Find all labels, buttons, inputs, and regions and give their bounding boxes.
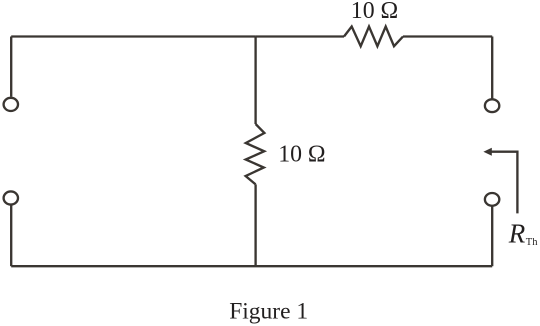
arrow RTh head xyxy=(483,148,491,156)
wire left upper (top-left corner to terminal a) xyxy=(10,37,12,97)
resistor R1 10 ohm (horizontal zigzag) xyxy=(344,27,403,47)
wire right lower (terminal d to bottom-right corner) xyxy=(491,207,493,267)
terminal a (upper-left open circle) xyxy=(4,98,18,111)
wire left lower (terminal b to bottom-left corner) xyxy=(10,205,12,266)
arrow RTh (L-shaped pointer line) xyxy=(490,152,518,214)
svg-text:Figure 1: Figure 1 xyxy=(229,299,308,325)
wire top (middle node to resistor R1) xyxy=(256,35,344,37)
wire middle upper (top wire down to resistor R2) xyxy=(254,37,256,125)
resistor R2 10 ohm (vertical zigzag) xyxy=(246,124,265,184)
terminal d (lower-right open circle) xyxy=(485,193,499,206)
wire top-right (resistor R1 to top-right corner) xyxy=(403,35,492,37)
terminal b (lower-left open circle) xyxy=(4,191,18,204)
wire right upper (corner down to terminal c) xyxy=(491,37,493,99)
wire top (left node to middle node) xyxy=(11,35,255,37)
svg-text:10 Ω: 10 Ω xyxy=(278,141,325,167)
svg-text:Th: Th xyxy=(526,237,538,248)
wire bottom (full width) xyxy=(11,265,492,267)
wire middle lower (resistor R2 to bottom wire) xyxy=(254,184,256,265)
terminal c (upper-right open circle) xyxy=(485,99,499,112)
svg-text:R: R xyxy=(508,219,526,249)
svg-text:10 Ω: 10 Ω xyxy=(351,0,398,24)
